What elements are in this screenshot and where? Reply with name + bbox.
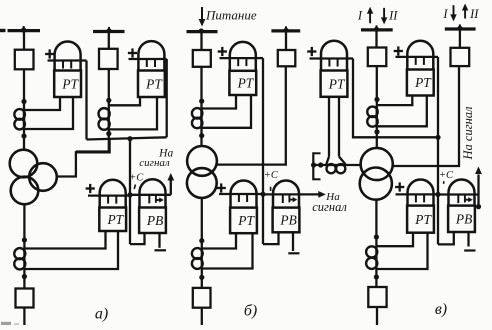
svg-text:+С: +С — [129, 173, 144, 184]
current relay RT lower, variant v — [396, 180, 439, 233]
wire breaker to CT, a line 2 — [108, 69, 110, 153]
wire lower CT bottom tap to RT lower b — [202, 233, 253, 268]
svg-text:РВ: РВ — [279, 213, 296, 228]
wire bus to breaker, b line 2 — [285, 31, 287, 50]
svg-text:РТ: РТ — [328, 76, 346, 91]
wire RT top dome to corner b — [255, 57, 263, 59]
svg-text:+С: +С — [264, 170, 279, 181]
current relay RT1 — [48, 42, 82, 97]
smudge bottom left corner — [1, 322, 19, 325]
CT coil, a line 2 — [99, 108, 110, 130]
wire CT top tap to RT top b — [202, 95, 237, 109]
wire lower CT top tap to RT lower v — [376, 233, 413, 247]
time relay PB, variant b — [263, 181, 323, 233]
junction above lower CT v — [374, 234, 379, 239]
wire CT bottom tap to RT2 — [109, 97, 157, 129]
wire bus to breaker box, a line 1 — [23, 31, 25, 50]
junction +C at relay line v — [435, 192, 440, 197]
wire RT1 plus line to signal rail — [85, 61, 87, 140]
wire to lower box b — [201, 269, 203, 288]
time relay PB, variant a — [130, 179, 171, 233]
svg-text:РТ: РТ — [61, 76, 79, 91]
wire lower box to edge, variant a — [23, 308, 25, 326]
CT coil, variant v line 1 — [367, 107, 377, 127]
svg-text:РВ: РВ — [146, 213, 163, 228]
CT coil, variant b — [192, 108, 202, 128]
svg-text:РТ: РТ — [106, 212, 124, 227]
current relay RT2, variant v — [396, 41, 434, 96]
wire breaker to CT, v line 1 — [376, 66, 378, 149]
svg-text:а): а) — [95, 306, 108, 323]
wire line2 to transformer, variant a — [76, 150, 109, 152]
wire lower box to edge v — [376, 307, 378, 325]
busbar with tap, variant v line 2 — [445, 24, 476, 31]
junction node on signal rail a — [127, 136, 132, 141]
caption v) — [435, 301, 447, 318]
junction below lower CT b — [199, 275, 204, 280]
plus terminal of RT lower b — [217, 183, 226, 192]
wire transformer to lower CT v — [375, 200, 377, 247]
label +C, variant a — [129, 173, 144, 190]
label I and arrows, v line 2 — [442, 4, 479, 22]
junction above CT coil v — [374, 97, 379, 102]
wire RT2 dome to corner v — [433, 56, 438, 58]
lower breaker box, variant a — [16, 289, 34, 308]
current relay RT lower, variant b — [219, 181, 263, 234]
wire CT bottom tap to relay RT1 — [24, 97, 73, 129]
wire transformer to lower CT, variant a — [23, 204, 25, 248]
svg-text:сигнал: сигнал — [312, 200, 347, 214]
wire PB minus lead, variant a — [158, 233, 160, 248]
busbar with tap, variant b line 2 — [271, 26, 300, 33]
wire transformer to lower CT b — [201, 198, 203, 249]
junction above CT coil a2 — [106, 98, 111, 103]
wire breaker to CT, a line 1 — [23, 69, 25, 150]
terminator dash below PB a — [155, 249, 167, 251]
wire to lower box v — [375, 269, 377, 287]
wire CT top tap to RT2 v — [377, 96, 413, 106]
plus terminal of RT2 v — [394, 46, 403, 55]
two-winding transformer, variant v — [360, 148, 393, 200]
svg-text:РТ: РТ — [237, 76, 255, 91]
wire PB minus lead b — [292, 232, 294, 251]
plus terminal of RT1 — [45, 49, 54, 58]
wire +C jog into PB coil, variant a — [130, 233, 145, 244]
wire lower CT bottom tap to RT lower v — [376, 233, 427, 269]
wire lower CT bottom tap to RT3 — [24, 232, 118, 270]
breaker box, v line 2 — [451, 48, 470, 66]
svg-text:РТ: РТ — [414, 212, 432, 227]
wire transformer right to line 2, variant b — [217, 66, 286, 164]
signal arrowhead, variant a — [167, 173, 174, 181]
svg-text:Питание: Питание — [205, 8, 257, 23]
caption a) — [95, 306, 108, 323]
wire bus to breaker, b line 1 — [200, 32, 202, 50]
svg-text:РТ: РТ — [237, 213, 255, 228]
svg-text:РТ: РТ — [145, 76, 163, 91]
wire transformer secondary staircase, variant a — [57, 139, 110, 176]
junction below CT coil a2 — [106, 131, 111, 136]
junction above lower CT b — [199, 238, 204, 243]
junction at bracket v — [311, 162, 316, 167]
plus terminal of RT2 — [128, 48, 137, 57]
three-winding transformer, variant a — [10, 150, 57, 205]
plus terminal of RT lower v — [395, 182, 404, 191]
breaker box, b line 1 — [193, 50, 211, 67]
lower CT coil, variant v — [366, 246, 377, 269]
lower breaker box, variant v — [368, 287, 386, 307]
label +C, variant b — [264, 170, 279, 191]
label +C, variant v — [439, 170, 454, 184]
signal arrowhead, variant v — [475, 167, 482, 175]
wire lower CT top tap to RT3 — [24, 231, 105, 249]
breaker box, a line 1 — [15, 50, 34, 70]
label Pitanie — [205, 8, 257, 23]
plus terminal of RT3 — [86, 184, 95, 193]
svg-text:РТ: РТ — [414, 75, 432, 90]
wire RT1 plus to +C junction v — [353, 59, 438, 138]
wire bus to breaker, v line 1 — [375, 30, 377, 48]
wire lower box to edge b — [201, 308, 203, 325]
wire +C drop to relays, variant a — [129, 139, 131, 244]
junction below signal arrow v — [476, 204, 481, 209]
label I and arrows, v line 1 — [357, 7, 398, 25]
power feed arrow Pitanie — [199, 7, 206, 27]
junction above lower CT a — [22, 237, 27, 242]
wire transformer right to line 2, variant v — [392, 66, 459, 166]
wire RT2 plus line down to rail — [166, 59, 168, 137]
wire RT1 coil leads down, variant v — [329, 97, 339, 157]
svg-text:II: II — [469, 7, 479, 21]
junction +C at relay line, variant a — [127, 192, 132, 197]
current relay RT top, variant b — [220, 42, 257, 95]
series coil on signal wire, variant v — [327, 164, 346, 173]
wire RT1 dome to corner — [81, 59, 87, 61]
svg-text:I: I — [442, 7, 448, 21]
terminator dash below PB v — [464, 249, 475, 251]
signal rail between RT1 and RT2 — [87, 137, 167, 139]
wire bus to breaker, a line 2 — [108, 32, 110, 49]
wire RT1 lead flare left v — [326, 157, 329, 165]
CT coil, a line 1 — [14, 109, 25, 129]
junction below CT coil b — [199, 133, 204, 138]
time relay PB, variant v — [438, 180, 479, 233]
signal arrowhead, variant b — [318, 191, 326, 198]
plus terminal of RT1 v — [307, 47, 316, 56]
busbar with tap, variant a line 1 — [8, 26, 41, 33]
wire +C drop, variant b — [262, 58, 264, 244]
svg-text:II: II — [388, 8, 398, 22]
stray mark left edge top — [0, 29, 6, 32]
lower CT coil, variant a — [14, 248, 25, 269]
wire bracket to transformer, variant v — [313, 164, 361, 166]
junction at coil start v — [318, 162, 323, 167]
svg-text:I: I — [357, 8, 363, 22]
breaker box, b line 2 — [278, 50, 296, 66]
wire +C jog into PB coil b — [263, 232, 279, 244]
label Na signal, variant b — [312, 191, 347, 214]
junction signal to +C drop v — [435, 135, 440, 140]
current relay RT2 — [129, 41, 165, 97]
current relay RT3 (lower, variant a) — [88, 180, 130, 231]
svg-text:сигнал: сигнал — [139, 157, 170, 169]
svg-text:+С: +С — [439, 170, 454, 181]
wire +C jog into PB coil v — [438, 232, 454, 244]
junction above CT coil a1 — [21, 99, 26, 104]
wire PB minus lead v — [467, 232, 469, 247]
junction above CT coil b — [199, 99, 204, 104]
junction below CT coil v — [374, 129, 379, 134]
two-winding transformer, variant b — [187, 146, 217, 198]
breaker box, a line 2 — [99, 49, 118, 69]
svg-text:б): б) — [244, 303, 257, 320]
caption b) — [244, 303, 257, 320]
junction below CT coil a1 — [21, 133, 26, 138]
svg-text:в): в) — [435, 301, 447, 318]
busbar with tap, variant b line 1 — [187, 28, 218, 33]
wire CT bottom tap to RT2 v — [377, 96, 427, 127]
label Na signal rotated, variant v — [461, 106, 475, 161]
wire to lower box a — [23, 269, 25, 289]
busbar with tap, variant v line 1 — [361, 25, 393, 32]
lower CT coil, variant b — [192, 248, 203, 269]
connector bracket to parallel line, variant v — [313, 152, 320, 180]
wire +C drop, variant v — [437, 137, 439, 244]
current relay RT1, variant v — [310, 41, 348, 97]
junction +C at relay line b — [260, 192, 265, 197]
wire bus to breaker, v line 2 — [459, 29, 461, 48]
wire RT1 dome to corner v — [347, 57, 353, 59]
wire CT bottom tap to RT top b — [202, 95, 252, 128]
label Na signal, variant a — [139, 148, 173, 170]
wire PB to signal arrow, variant v — [477, 175, 479, 207]
junction below lower CT v — [374, 274, 379, 279]
terminator dash below PB b — [288, 252, 299, 254]
wire breaker to CT, b line 1 — [200, 67, 202, 147]
wire RT2 plus line down to +C junction v — [437, 57, 439, 137]
wire lower CT top tap to RT lower b — [202, 233, 236, 248]
wire RT2 dome to corner — [164, 58, 166, 60]
wire CT top tap to relay RT1 — [24, 97, 60, 110]
wire RT1 lead flare right v — [339, 157, 346, 165]
junction below lower CT a — [22, 274, 27, 279]
busbar with tap, variant a line 2 — [93, 27, 125, 34]
plus terminal of RT top b — [218, 47, 227, 56]
breaker box, v line 1 — [368, 48, 387, 67]
lower breaker box, variant b — [193, 288, 211, 308]
wire CT top tap to RT2 — [109, 97, 140, 105]
svg-text:РВ: РВ — [455, 211, 472, 226]
svg-text:На сигнал: На сигнал — [461, 106, 475, 161]
wire PB to signal arrow, variant a — [170, 176, 172, 195]
